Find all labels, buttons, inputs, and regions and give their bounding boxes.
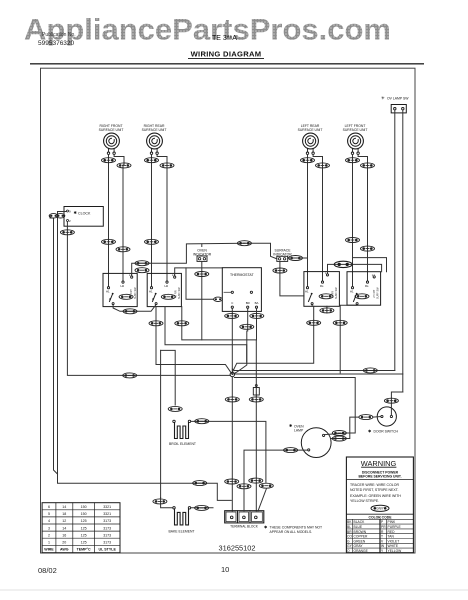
connector right of surface indicator xyxy=(289,256,303,261)
svg-text:BLACK: BLACK xyxy=(354,520,366,524)
wire LF right to switch4 Rs xyxy=(358,155,367,281)
svg-text:P: P xyxy=(152,297,154,301)
wire LR right to switch3 Rs xyxy=(313,155,322,281)
wire junction down to terminal block left xyxy=(231,377,233,511)
svg-text:✱: ✱ xyxy=(264,525,268,530)
svg-text:08/02: 08/02 xyxy=(38,566,57,575)
wire clock pin2 down to bus xyxy=(67,222,230,376)
svg-text:TEMP°C: TEMP°C xyxy=(77,548,91,552)
wire feed to surface indicator xyxy=(244,243,277,259)
svg-text:BROWN: BROWN xyxy=(354,530,367,534)
svg-text:✳: ✳ xyxy=(381,96,385,101)
left rear surface unit LR xyxy=(298,124,323,154)
svg-text:3173: 3173 xyxy=(103,519,111,523)
svg-text:BR: BR xyxy=(246,301,250,305)
connector left of door switch xyxy=(359,415,373,420)
svg-text:RED: RED xyxy=(388,530,396,534)
wire mid feed down to terminal block xyxy=(165,307,247,362)
connector inside SW3 xyxy=(319,294,333,299)
bus line A xyxy=(232,369,394,371)
wire door switch left xyxy=(373,416,381,419)
left front surface unit LF xyxy=(343,124,368,154)
wire SW3 side down xyxy=(326,306,328,313)
svg-text:YELLOW: YELLOW xyxy=(388,549,403,553)
connector below SW3 xyxy=(307,320,321,325)
connector on LR right wire xyxy=(316,163,330,168)
switch SW4 left front surf sw xyxy=(347,272,381,306)
connector below C xyxy=(225,313,239,318)
right rear surface unit RR xyxy=(142,124,167,154)
wire SW4 P down to bus xyxy=(340,305,357,373)
connector inside SW4 xyxy=(355,294,369,299)
connector on P jumper xyxy=(123,309,137,314)
svg-text:INDICATOR: INDICATOR xyxy=(273,252,292,256)
connector pair left of clock xyxy=(49,214,58,218)
wire thermostat internal left xyxy=(224,291,231,293)
svg-text:H2: H2 xyxy=(165,284,169,288)
svg-text:L1: L1 xyxy=(372,273,376,277)
faint bottom scan line xyxy=(0,589,468,591)
connector right of broil xyxy=(195,419,209,424)
junction node xyxy=(230,372,234,376)
svg-text:✱: ✱ xyxy=(74,210,78,215)
connector on RR left wire xyxy=(145,158,159,163)
svg-text:PR: PR xyxy=(381,525,386,529)
big connector on L1 link xyxy=(334,261,352,267)
wire RR right to switch2 H2 xyxy=(157,155,167,281)
wire bake right xyxy=(191,507,213,509)
wire SW1 P diagonal to SW2 xyxy=(113,305,156,312)
svg-text:5: 5 xyxy=(48,512,50,516)
wire broil feed down xyxy=(161,350,176,405)
wire to bake left xyxy=(161,498,173,508)
top rule xyxy=(30,63,424,65)
wire L1 link SW3 to SW4 xyxy=(328,264,382,273)
connector below surface indicator xyxy=(273,268,287,273)
svg-text:WHITE: WHITE xyxy=(388,544,399,548)
svg-text:3321: 3321 xyxy=(103,505,111,509)
wire tee down to thermostat left terminal xyxy=(186,268,214,299)
connectors above terminal block xyxy=(225,479,239,484)
wire SW1 L1 up to oven indicator feed xyxy=(132,263,150,276)
wire feed to SW4 upper xyxy=(353,258,387,272)
connector left of bake xyxy=(153,499,167,504)
connector on indicator feed xyxy=(237,241,251,246)
svg-text:16: 16 xyxy=(62,533,66,537)
svg-text:125: 125 xyxy=(81,526,87,530)
connector left of thermostat xyxy=(214,297,223,301)
wire lamp second xyxy=(331,417,359,438)
svg-text:SURFACE UNIT: SURFACE UNIT xyxy=(298,128,323,132)
wire thermostat BR down xyxy=(247,308,249,331)
svg-text:GREEN: GREEN xyxy=(354,539,366,543)
wire lamp sw left terminal down xyxy=(394,110,396,371)
svg-text:DOOR SWITCH: DOOR SWITCH xyxy=(374,430,399,434)
connector above broil xyxy=(168,406,182,411)
svg-text:H1: H1 xyxy=(350,290,354,294)
svg-text:6: 6 xyxy=(48,505,50,509)
svg-text:14: 14 xyxy=(62,526,66,530)
svg-text:TERMINAL BLOCK: TERMINAL BLOCK xyxy=(230,525,259,529)
wire thermostat BA down xyxy=(256,308,258,340)
svg-text:PINK: PINK xyxy=(388,520,396,524)
svg-text:3: 3 xyxy=(48,526,50,530)
connector mid RR left xyxy=(145,239,159,244)
svg-text:SURFACE UNIT: SURFACE UNIT xyxy=(343,128,368,132)
svg-text:Rs: Rs xyxy=(320,284,324,288)
wire LF left to switch4 H1 xyxy=(352,155,354,287)
svg-text:GN/Y: GN/Y xyxy=(376,507,385,511)
connector under SW3 xyxy=(320,308,334,313)
svg-text:2: 2 xyxy=(48,533,50,537)
wire diag into block right xyxy=(258,489,266,511)
svg-text:SURFACE UNIT: SURFACE UNIT xyxy=(142,128,167,132)
svg-text:1: 1 xyxy=(48,541,50,545)
svg-text:H1: H1 xyxy=(149,290,153,294)
svg-text:WARNING: WARNING xyxy=(361,459,397,468)
svg-text:VIOLET: VIOLET xyxy=(388,539,400,543)
connector on bus A xyxy=(363,368,377,373)
connector above door switch xyxy=(384,398,398,403)
svg-text:LT FRT: LT FRT xyxy=(373,289,376,298)
svg-text:EXAMPLE: GREEN WIRE WITH: EXAMPLE: GREEN WIRE WITH xyxy=(350,494,401,498)
connector on LF right wire xyxy=(361,163,375,168)
svg-text:SURF SW: SURF SW xyxy=(134,287,137,299)
svg-text:C: C xyxy=(231,301,233,305)
svg-text:H1: H1 xyxy=(106,290,110,294)
wire LR left to switch3 H1 xyxy=(307,155,309,287)
svg-text:3173: 3173 xyxy=(103,533,111,537)
svg-text:BLUE: BLUE xyxy=(354,525,363,529)
wire SW2 L1 up-right to thermostat xyxy=(175,268,223,276)
clock box xyxy=(64,207,103,227)
svg-text:12: 12 xyxy=(62,519,66,523)
svg-text:125: 125 xyxy=(81,541,87,545)
stacked connectors above SW2 xyxy=(135,261,149,266)
connector below BA xyxy=(250,313,264,318)
wire RF right to switch1 H2 xyxy=(114,155,124,281)
svg-text:TRACER WIRE: WIRE COLOR: TRACER WIRE: WIRE COLOR xyxy=(350,483,399,487)
svg-text:BAKE ELEMENT: BAKE ELEMENT xyxy=(168,530,194,534)
svg-text:BROIL ELEMENT: BROIL ELEMENT xyxy=(169,442,196,446)
svg-text:H1: H1 xyxy=(305,290,309,294)
svg-text:3173: 3173 xyxy=(103,541,111,545)
svg-text:OV LAMP SW: OV LAMP SW xyxy=(387,97,409,101)
switch SW2 right rear surf sw xyxy=(147,273,181,307)
connector below SW2 xyxy=(149,321,163,326)
svg-text:BR: BR xyxy=(347,530,352,534)
svg-text:GY: GY xyxy=(347,544,353,548)
connector on BA drop xyxy=(249,397,263,402)
connector lamp right upper xyxy=(332,431,346,436)
svg-text:WIRE: WIRE xyxy=(44,548,54,552)
svg-text:TE 3**A: TE 3**A xyxy=(212,35,237,42)
wire SW2 P down xyxy=(156,307,232,375)
connector inside SW2 xyxy=(161,294,175,299)
svg-text:5995376320: 5995376320 xyxy=(38,40,75,47)
svg-text:CLOCK: CLOCK xyxy=(78,212,91,216)
wire surface indicator down xyxy=(280,261,304,296)
svg-text:T: T xyxy=(381,535,383,539)
svg-text:PURPLE: PURPLE xyxy=(388,525,402,529)
connector on RF left wire xyxy=(102,158,116,163)
wire clock pin9 left and down (long left feed) xyxy=(58,212,232,501)
right front surface unit RF xyxy=(99,124,124,154)
connector inside SW1 xyxy=(119,294,133,299)
svg-text:BL: BL xyxy=(347,525,351,529)
svg-text:20: 20 xyxy=(62,541,66,545)
bus line C xyxy=(234,378,355,434)
svg-text:18: 18 xyxy=(62,512,66,516)
svg-text:APPEAR ON ALL MODELS.: APPEAR ON ALL MODELS. xyxy=(270,530,313,534)
connector below SW2 right xyxy=(175,321,189,326)
page border xyxy=(41,68,416,553)
wire lamp top terminal to bus xyxy=(325,433,347,435)
svg-text:BA: BA xyxy=(255,301,259,305)
connector below oven indicator xyxy=(195,272,209,277)
wire SW3 P down to bus xyxy=(232,305,313,373)
wire RF left to switch1 H1 xyxy=(108,155,110,287)
connector under junction xyxy=(225,397,239,402)
svg-text:CO: CO xyxy=(347,535,352,539)
wire lamp sw right terminal down xyxy=(402,110,404,392)
connector on LR left wire xyxy=(301,158,315,163)
svg-text:4: 4 xyxy=(48,519,50,523)
svg-text:LAMP: LAMP xyxy=(294,428,304,432)
svg-text:O: O xyxy=(347,549,350,553)
bus line B xyxy=(234,373,402,375)
wire door switch top from lamp sw xyxy=(391,392,402,415)
connector lamp right lower xyxy=(332,436,346,441)
svg-text:3321: 3321 xyxy=(103,512,111,516)
wire SW2 side down to broil feed xyxy=(182,307,256,511)
connector below SW4 xyxy=(333,320,347,325)
connector below BR xyxy=(240,324,254,329)
connector mid LF right xyxy=(361,246,375,251)
svg-text:G: G xyxy=(347,539,350,543)
svg-text:WIRING DIAGRAM: WIRING DIAGRAM xyxy=(191,50,262,59)
connector below clock xyxy=(60,230,74,235)
svg-text:NOTED FIRST, STRIPE NEXT.: NOTED FIRST, STRIPE NEXT. xyxy=(350,488,399,492)
wire bake feed down xyxy=(160,350,162,497)
connector on RR right wire xyxy=(160,163,174,168)
svg-text:BEFORE SERVICING UNIT.: BEFORE SERVICING UNIT. xyxy=(358,475,401,479)
svg-text:SURF SW: SURF SW xyxy=(377,287,380,299)
connector left of lamp xyxy=(284,448,298,453)
svg-text:P: P xyxy=(109,297,111,301)
svg-text:150: 150 xyxy=(81,505,87,509)
svg-text:3173: 3173 xyxy=(103,526,111,530)
svg-text:SURF SW: SURF SW xyxy=(335,287,338,299)
connector on LF left wire xyxy=(346,158,360,163)
connector right of bake xyxy=(195,505,209,510)
connector mid RF left xyxy=(102,239,116,244)
svg-text:H2: H2 xyxy=(121,284,125,288)
svg-text:Rs: Rs xyxy=(365,284,369,288)
svg-text:AWG: AWG xyxy=(60,548,69,552)
switch SW3 left rear surf sw xyxy=(304,271,340,306)
wire broil right to bus xyxy=(191,421,266,482)
wire thermostat C down xyxy=(231,308,233,374)
svg-text:10: 10 xyxy=(221,565,229,574)
svg-text:316255102: 316255102 xyxy=(219,544,256,553)
wire oven indicator down xyxy=(201,261,203,340)
switch SW1 right front surf sw xyxy=(103,273,137,307)
svg-text:GRAY: GRAY xyxy=(354,544,364,548)
connector on long bus at left xyxy=(123,373,137,378)
svg-text:SURFACE UNIT: SURFACE UNIT xyxy=(99,128,124,132)
svg-text:YELLOW STRIPE.: YELLOW STRIPE. xyxy=(350,499,379,503)
svg-text:AppliancePartsPros.com: AppliancePartsPros.com xyxy=(24,14,391,47)
wire oven indicator top stub xyxy=(201,244,203,247)
svg-text:ORANGE: ORANGE xyxy=(354,549,369,553)
wire BR to junction xyxy=(232,331,247,375)
connector on left feed line xyxy=(193,481,207,486)
wire lamp left down to block xyxy=(244,450,308,511)
svg-text:THERMOSTAT: THERMOSTAT xyxy=(230,273,254,277)
svg-text:COPPER: COPPER xyxy=(354,535,369,539)
svg-text:UL STYLE: UL STYLE xyxy=(99,548,117,552)
small inline component (oven sensor) xyxy=(253,385,259,396)
svg-text:L1: L1 xyxy=(325,271,329,275)
wire surface indicator right chain xyxy=(288,257,308,259)
svg-text:125: 125 xyxy=(81,519,87,523)
svg-text:14: 14 xyxy=(62,505,66,509)
svg-text:150: 150 xyxy=(81,512,87,516)
connector on RF right wire xyxy=(117,163,131,168)
connector mid RF right xyxy=(116,247,130,252)
svg-text:Publication No.: Publication No. xyxy=(42,32,76,38)
svg-text:125: 125 xyxy=(81,533,87,537)
wire parallel left feed xyxy=(50,216,58,474)
svg-text:SURF SW: SURF SW xyxy=(178,287,181,299)
connector mid LF left xyxy=(346,238,360,243)
svg-text:TAN: TAN xyxy=(388,535,395,539)
wire RR left to switch2 H1 xyxy=(151,155,153,287)
wire L1 chain to feed line xyxy=(149,243,244,263)
